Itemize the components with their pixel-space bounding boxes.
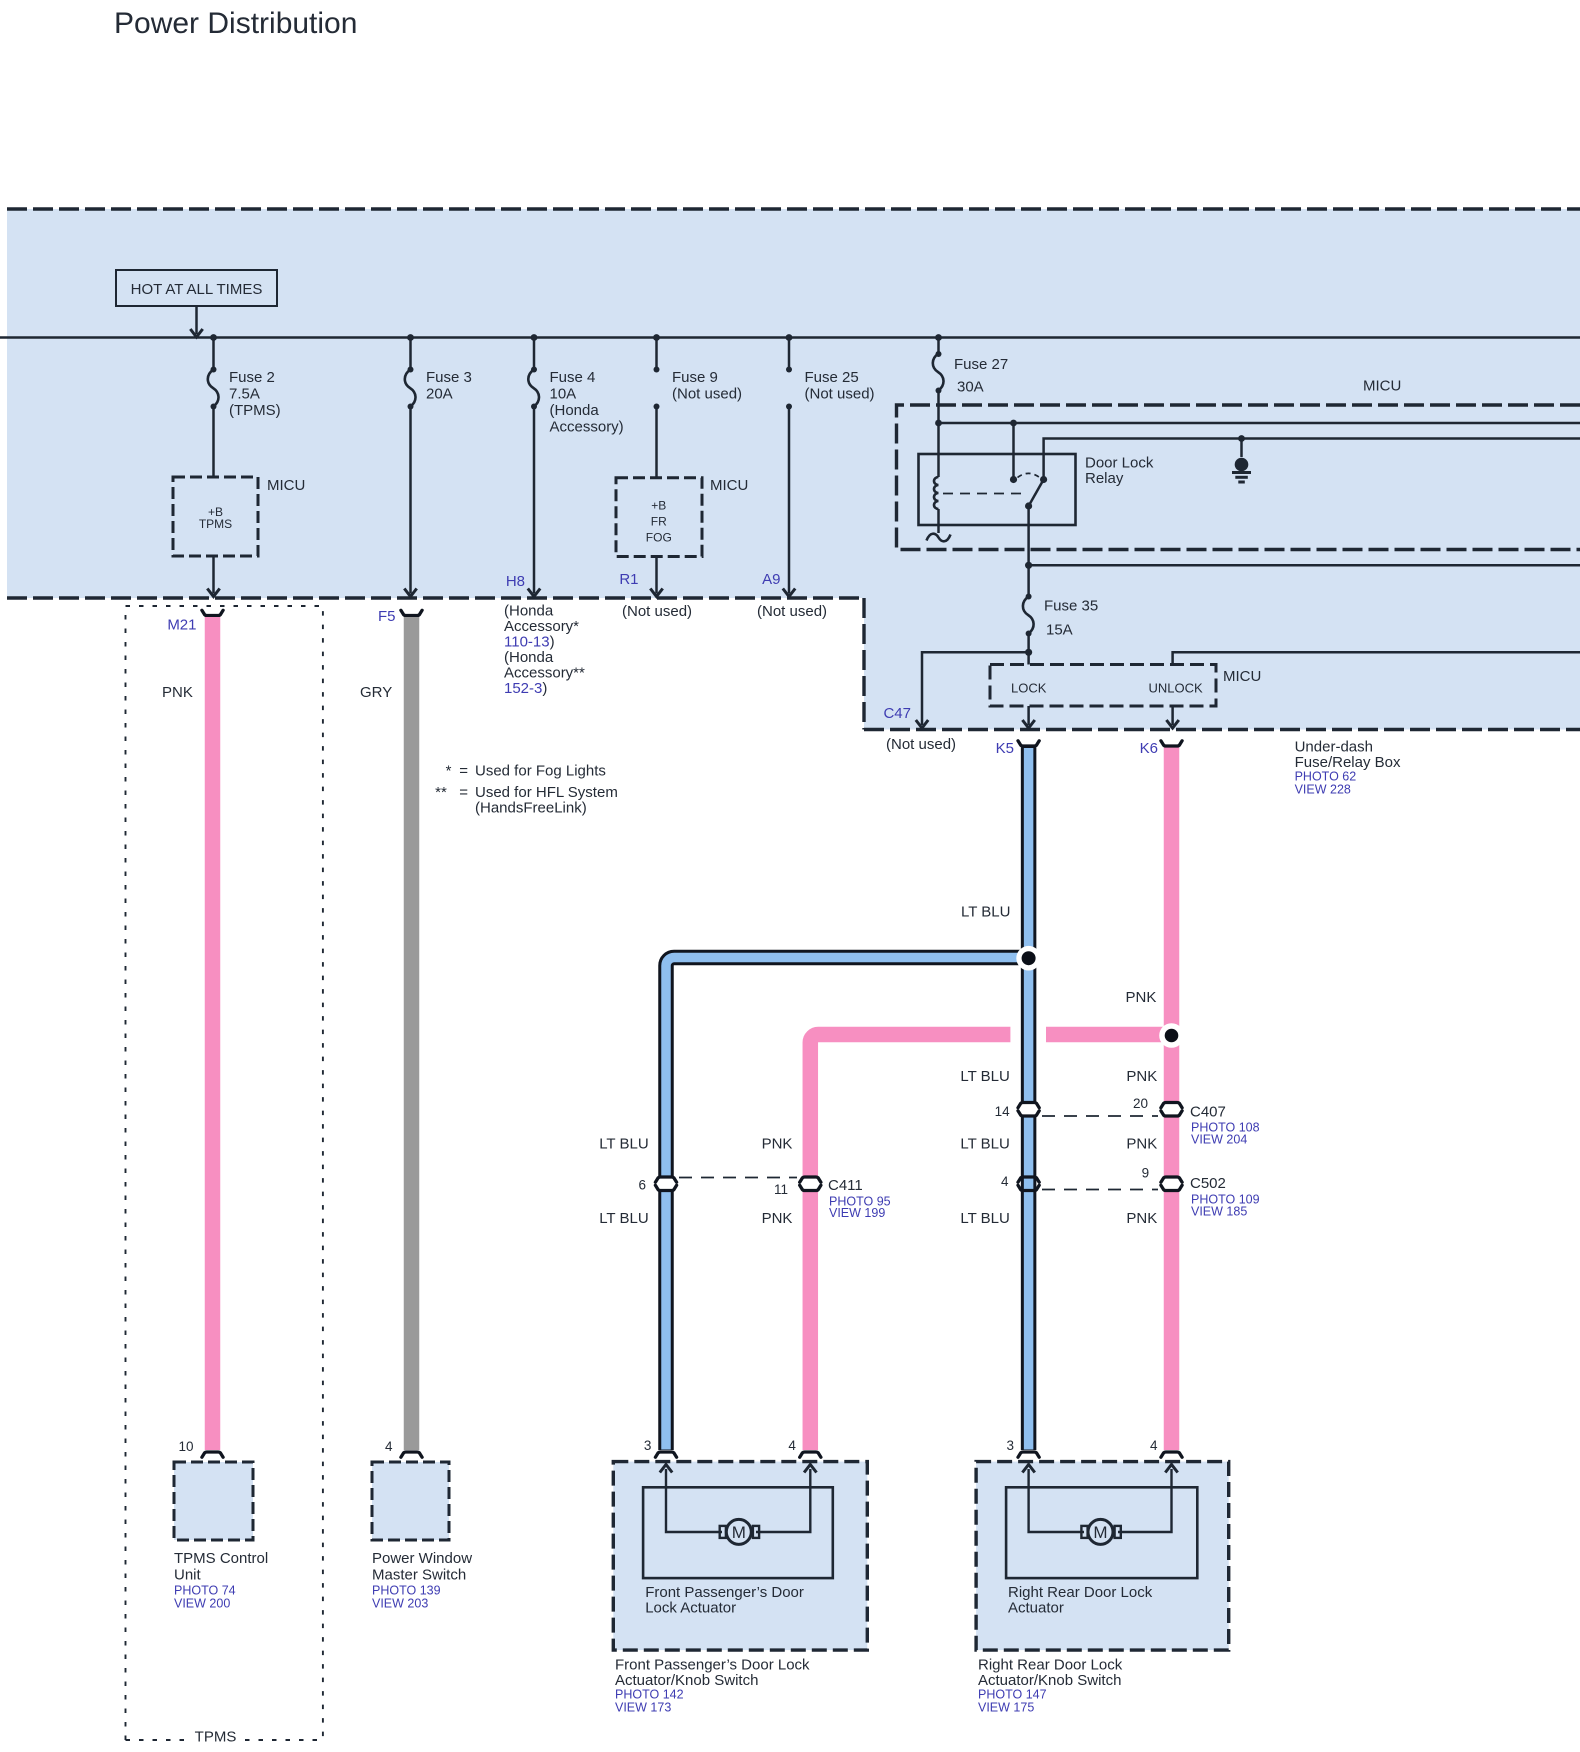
wire: front actuator pin3 lead with up arrow bbox=[666, 1469, 722, 1532]
wire: MICU +B TPMS to M21 bbox=[212, 556, 215, 594]
svg-text:PNK: PNK bbox=[162, 684, 193, 701]
wire: relay common down through box bbox=[1027, 506, 1030, 565]
svg-text:MICU: MICU bbox=[1363, 378, 1401, 395]
svg-text:30A: 30A bbox=[957, 379, 984, 396]
svg-text:Power Window: Power Window bbox=[372, 1550, 472, 1567]
svg-text:Used for HFL System: Used for HFL System bbox=[475, 784, 618, 801]
fuse/relay box dashed border: notch vertical edge bbox=[862, 598, 865, 730]
svg-text:Door Lock: Door Lock bbox=[1085, 455, 1154, 472]
svg-text:PHOTO 142: PHOTO 142 bbox=[615, 1688, 684, 1702]
svg-text:Fuse 35: Fuse 35 bbox=[1044, 598, 1098, 615]
Under-dash Fuse/Relay Box blue background region bbox=[7, 209, 1580, 730]
wire: tap down to Fuse 9 (not used) bbox=[655, 338, 658, 370]
op-amp: MICU LOCK/UNLOCK dashed box U3 bbox=[990, 665, 1216, 707]
wire: Fuse 4 down to H8 bbox=[533, 407, 536, 594]
svg-text:11: 11 bbox=[774, 1182, 788, 1197]
svg-text:MICU: MICU bbox=[710, 477, 748, 494]
svg-text:K5: K5 bbox=[996, 740, 1014, 757]
svg-text:FR: FR bbox=[651, 515, 667, 529]
box: Front Passenger's Door Lock Actuator/Knob Switch dashed bbox=[613, 1462, 867, 1651]
wire: tap down to Fuse 3 bbox=[409, 338, 412, 370]
connector cap TPMS pin 10 bbox=[202, 1452, 223, 1457]
svg-text:HOT AT ALL TIMES: HOT AT ALL TIMES bbox=[131, 281, 263, 298]
svg-text:Fuse/Relay Box: Fuse/Relay Box bbox=[1295, 754, 1401, 771]
svg-text:VIEW 200: VIEW 200 bbox=[174, 1597, 230, 1611]
svg-text:TPMS: TPMS bbox=[199, 517, 232, 531]
node: ground tap junction on line 2 bbox=[1238, 435, 1245, 442]
svg-text:+B: +B bbox=[651, 499, 666, 513]
svg-text:*: * bbox=[446, 763, 452, 780]
connector cap right rear actuator pin 3 bbox=[1018, 1452, 1039, 1457]
wire: Fuse 9 socket to MICU +B FR FOG bbox=[655, 407, 658, 478]
svg-text:152-3): 152-3) bbox=[504, 680, 547, 697]
svg-text:C47: C47 bbox=[883, 705, 911, 722]
node: relay common terminal bbox=[1025, 502, 1032, 509]
svg-text:UNLOCK: UNLOCK bbox=[1149, 681, 1204, 696]
svg-text:Fuse 4: Fuse 4 bbox=[550, 369, 596, 386]
svg-text:Under-dash: Under-dash bbox=[1295, 739, 1373, 756]
box: Right Rear Door Lock Actuator/Knob Switch dashed bbox=[976, 1462, 1229, 1651]
svg-text:PNK: PNK bbox=[762, 1210, 793, 1227]
svg-text:4: 4 bbox=[385, 1439, 393, 1454]
wire: MICU internal feed line 1 bbox=[939, 422, 1580, 425]
fuse F2 (Fuse 2 7.5A TPMS) bbox=[211, 367, 217, 373]
svg-text:LT BLU: LT BLU bbox=[961, 904, 1010, 921]
wire: Fuse 27 down to relay coil bbox=[937, 391, 940, 478]
wire: GRY from F5 to power window master switch bbox=[404, 617, 420, 1450]
svg-text:FOG: FOG bbox=[646, 531, 672, 545]
svg-text:Master Switch: Master Switch bbox=[372, 1567, 466, 1584]
wire: front actuator LT BLU lower segment (below C411) bbox=[658, 1191, 674, 1451]
wire: front actuator PNK lower segment (below C411) bbox=[803, 1191, 819, 1451]
svg-text:C407: C407 bbox=[1190, 1104, 1226, 1121]
svg-text:PNK: PNK bbox=[762, 1136, 793, 1153]
wire: Fuse 3 down to F5 connector bbox=[409, 407, 412, 594]
svg-text:PNK: PNK bbox=[1126, 989, 1157, 1006]
connector C411 break on PNK (pin 11) bbox=[800, 1177, 821, 1182]
box: TPMS Control Unit bbox=[174, 1462, 253, 1540]
connector C502 break on LT BLU (pin 4) bbox=[1018, 1177, 1039, 1182]
op-amp: MICU +B TPMS dashed box U1 bbox=[173, 477, 258, 556]
fuse F4 (Fuse 4 10A Honda Accessory) bbox=[531, 367, 537, 373]
relay K1: Door Lock Relay box bbox=[919, 454, 1076, 525]
svg-text:LT BLU: LT BLU bbox=[960, 1136, 1009, 1153]
wire: K5 LT BLU vertical upper segment bbox=[1021, 748, 1037, 1103]
svg-text:(Honda: (Honda bbox=[504, 603, 554, 620]
svg-text:TPMS Control: TPMS Control bbox=[174, 1550, 268, 1567]
wire: MICU internal feed line 2 with corner to relay pivot bbox=[1044, 439, 1580, 477]
wire: tap down to Fuse 25 (not used) bbox=[788, 338, 791, 370]
svg-text:VIEW 185: VIEW 185 bbox=[1191, 1205, 1247, 1219]
node: junction LT BLU branch bbox=[1016, 946, 1041, 971]
svg-text:PNK: PNK bbox=[1126, 1136, 1157, 1153]
svg-text:(Honda: (Honda bbox=[550, 402, 600, 419]
wire: rear actuator pin4 lead with up arrow bbox=[1118, 1469, 1172, 1532]
wire: MICU +B FR FOG to R1 bbox=[655, 557, 658, 594]
node: junction line1/relay contact bbox=[1010, 420, 1017, 427]
svg-text:VIEW 175: VIEW 175 bbox=[978, 1701, 1034, 1715]
svg-text:R1: R1 bbox=[619, 571, 638, 588]
svg-text:15A: 15A bbox=[1046, 622, 1073, 639]
svg-text:Accessory*: Accessory* bbox=[504, 618, 579, 635]
svg-text:PNK: PNK bbox=[1126, 1068, 1157, 1085]
wire: dashed connector link C502 bbox=[1042, 1189, 1158, 1191]
svg-text:(Not used): (Not used) bbox=[672, 386, 742, 403]
svg-text:Power Distribution: Power Distribution bbox=[114, 7, 357, 40]
connector cap front actuator pin 3 bbox=[655, 1452, 676, 1457]
wire: front actuator pin4 lead with up arrow bbox=[756, 1469, 810, 1532]
wire: tap down to Fuse 4 bbox=[533, 338, 536, 370]
svg-text:VIEW 204: VIEW 204 bbox=[1191, 1133, 1247, 1147]
svg-text:LT BLU: LT BLU bbox=[960, 1068, 1009, 1085]
svg-text:20: 20 bbox=[1133, 1096, 1148, 1111]
wire: tap down to Fuse 27 bbox=[937, 338, 940, 355]
connector cap F5 bbox=[401, 610, 422, 615]
wire: battery bus (hot at all times) bbox=[0, 336, 1580, 339]
svg-text:(HandsFreeLink): (HandsFreeLink) bbox=[475, 800, 587, 817]
fuse/relay box dashed border: bottom-left edge bbox=[7, 596, 864, 599]
wire: UNLOCK feed from right bbox=[1173, 652, 1580, 664]
svg-text:20A: 20A bbox=[426, 386, 453, 403]
svg-text:Actuator/Knob Switch: Actuator/Knob Switch bbox=[615, 1672, 758, 1689]
svg-text:4: 4 bbox=[788, 1438, 796, 1453]
fuse F27 (Fuse 27 30A) bbox=[936, 351, 942, 357]
wire: PNK horizontal branch right portion bbox=[1046, 1027, 1172, 1043]
svg-text:M21: M21 bbox=[167, 617, 196, 634]
svg-text:LOCK: LOCK bbox=[1011, 681, 1047, 696]
wire: UNLOCK output arrow to K6 bbox=[1171, 706, 1174, 725]
connector C407 break on PNK (pin 20) bbox=[1161, 1103, 1182, 1108]
wire: relay fixed contact from line 1 bbox=[1012, 423, 1015, 476]
svg-text:(Honda: (Honda bbox=[504, 649, 554, 666]
svg-text:C502: C502 bbox=[1190, 1175, 1226, 1192]
svg-text:14: 14 bbox=[995, 1104, 1011, 1119]
connector cap K5 bbox=[1018, 741, 1039, 746]
svg-text:MICU: MICU bbox=[267, 477, 305, 494]
svg-text:7.5A: 7.5A bbox=[229, 386, 260, 403]
svg-text:Actuator/Knob Switch: Actuator/Knob Switch bbox=[978, 1672, 1121, 1689]
wire: branch to C47 (not used) bbox=[922, 652, 1029, 725]
svg-text:PHOTO 139: PHOTO 139 bbox=[372, 1584, 441, 1598]
wire: rear actuator pin3 lead with up arrow bbox=[1029, 1469, 1084, 1532]
svg-text:9: 9 bbox=[1142, 1166, 1150, 1181]
svg-text:GRY: GRY bbox=[360, 684, 392, 701]
wire: LT BLU horizontal branch with corner down to front actuator pin 3 bbox=[666, 958, 1029, 1178]
svg-text:3: 3 bbox=[644, 1438, 652, 1453]
fuse F35 (Fuse 35 15A) bbox=[1027, 565, 1030, 596]
node: junction to C47 branch bbox=[1025, 649, 1032, 656]
node: HOT AT ALL TIMES label box bbox=[116, 270, 277, 306]
wire: K5 LT BLU vertical lower segment (below C407) bbox=[1021, 1116, 1037, 1451]
svg-text:Relay: Relay bbox=[1085, 470, 1124, 487]
svg-text:Fuse 27: Fuse 27 bbox=[954, 356, 1008, 373]
svg-text:(Not used): (Not used) bbox=[886, 736, 956, 753]
fuse F3 (Fuse 3 20A) bbox=[408, 367, 414, 373]
wire: LOCK output arrow to K5 bbox=[1027, 706, 1030, 725]
connector cap right rear actuator pin 4 bbox=[1161, 1452, 1182, 1457]
svg-text:LT BLU: LT BLU bbox=[960, 1210, 1009, 1227]
wire: Fuse 25 socket down to A9 bbox=[788, 407, 791, 594]
svg-text:VIEW 173: VIEW 173 bbox=[615, 1701, 671, 1715]
svg-text:110-13): 110-13) bbox=[504, 634, 555, 651]
svg-text:VIEW 199: VIEW 199 bbox=[829, 1206, 885, 1220]
svg-text:PHOTO 62: PHOTO 62 bbox=[1295, 770, 1357, 784]
svg-text:TPMS: TPMS bbox=[195, 1728, 237, 1745]
svg-text:(Not used): (Not used) bbox=[622, 603, 692, 620]
svg-text:F5: F5 bbox=[378, 608, 396, 625]
wire: relay output line to the right bbox=[1029, 564, 1580, 567]
connector cap front actuator pin 4 bbox=[800, 1452, 821, 1457]
svg-text:Unit: Unit bbox=[174, 1567, 202, 1584]
wire: dashed connector link C407 bbox=[1042, 1115, 1158, 1117]
svg-text:=: = bbox=[456, 763, 468, 780]
relay contact travel arc (dashed) bbox=[1018, 473, 1040, 477]
svg-text:M: M bbox=[732, 1523, 746, 1542]
box: Power Window Master Switch bbox=[372, 1462, 449, 1540]
box: rear actuator inner solid box bbox=[1006, 1487, 1197, 1578]
svg-text:VIEW 228: VIEW 228 bbox=[1295, 783, 1351, 797]
svg-text:6: 6 bbox=[638, 1178, 646, 1193]
svg-text:**: ** bbox=[435, 784, 447, 801]
svg-text:PHOTO 147: PHOTO 147 bbox=[978, 1688, 1047, 1702]
relay movable arm bbox=[1029, 480, 1044, 507]
relay mechanical link (dashed) bbox=[943, 493, 1026, 495]
node: bus tap for Fuse 25 bbox=[786, 334, 793, 341]
relay coil L1 bbox=[934, 477, 939, 509]
svg-text:K6: K6 bbox=[1140, 740, 1158, 757]
node: bus tap for Fuse 27 bbox=[935, 334, 942, 341]
svg-text:H8: H8 bbox=[506, 573, 525, 590]
connector C411 break on LT BLU (pin 6) bbox=[655, 1177, 676, 1182]
fuse/relay box dashed border: top edge bbox=[7, 207, 1580, 210]
connector cap PWMS pin 4 bbox=[401, 1452, 422, 1457]
svg-text:Fuse 25: Fuse 25 bbox=[805, 369, 859, 386]
svg-text:M: M bbox=[1093, 1523, 1107, 1542]
svg-text:MICU: MICU bbox=[1223, 668, 1261, 685]
fuse/relay box dashed border: bottom-right edge bbox=[864, 728, 1580, 731]
wire: Fuse 2 to MICU +B TPMS bbox=[212, 407, 215, 478]
node: bus tap for Fuse 4 bbox=[531, 334, 538, 341]
wire: PNK from M21 to TPMS control unit bbox=[205, 617, 221, 1450]
svg-text:4: 4 bbox=[1001, 1174, 1009, 1189]
wire: dashed connector link C411 bbox=[679, 1177, 797, 1179]
connector cap K6 bbox=[1161, 741, 1182, 746]
svg-text:=: = bbox=[456, 784, 468, 801]
svg-text:Fuse 2: Fuse 2 bbox=[229, 369, 275, 386]
svg-text:LT BLU: LT BLU bbox=[599, 1136, 648, 1153]
svg-text:Accessory): Accessory) bbox=[550, 419, 624, 436]
svg-text:Accessory**: Accessory** bbox=[504, 665, 585, 682]
motor M2: right rear door lock actuator motor bbox=[1088, 1519, 1113, 1544]
svg-text:VIEW 203: VIEW 203 bbox=[372, 1597, 428, 1611]
svg-text:Right Rear Door Lock: Right Rear Door Lock bbox=[1008, 1584, 1153, 1601]
svg-text:Actuator: Actuator bbox=[1008, 1600, 1064, 1617]
svg-text:3: 3 bbox=[1006, 1438, 1014, 1453]
svg-text:LT BLU: LT BLU bbox=[599, 1210, 648, 1227]
motor M1: front door lock actuator motor bbox=[726, 1519, 751, 1544]
node: TPMS dotted enclosure bbox=[126, 606, 323, 1740]
wire: K6 PNK vertical upper segment bbox=[1164, 748, 1180, 1103]
connector C502 break on PNK (pin 9) bbox=[1161, 1177, 1182, 1182]
svg-text:Fuse 9: Fuse 9 bbox=[672, 369, 718, 386]
svg-text:Fuse 3: Fuse 3 bbox=[426, 369, 472, 386]
wire: K6 PNK vertical middle segment bbox=[1164, 1116, 1180, 1178]
node: junction PNK branch bbox=[1159, 1023, 1184, 1048]
box: front actuator inner solid box bbox=[643, 1487, 833, 1578]
ground G1 bbox=[1240, 439, 1243, 458]
wire: fuse 35 to LOCK driver bbox=[1027, 634, 1030, 665]
connector C407 break on LT BLU (pin 14) bbox=[1018, 1103, 1039, 1108]
svg-text:10: 10 bbox=[178, 1439, 193, 1454]
svg-text:(TPMS): (TPMS) bbox=[229, 402, 281, 419]
svg-text:(Not used): (Not used) bbox=[805, 386, 875, 403]
svg-text:PNK: PNK bbox=[1126, 1210, 1157, 1227]
svg-text:4: 4 bbox=[1150, 1438, 1158, 1453]
wire: arrow from HOT AT ALL TIMES to bus bbox=[195, 306, 198, 334]
node: bus tap for Fuse 3 bbox=[407, 334, 414, 341]
svg-text:Front Passenger’s Door: Front Passenger’s Door bbox=[645, 1584, 804, 1601]
node: bus tap for Fuse 2 bbox=[210, 334, 217, 341]
svg-text:C411: C411 bbox=[828, 1177, 863, 1194]
connector cap M21 bbox=[202, 610, 223, 615]
node: relay pivot contact bbox=[1040, 476, 1047, 483]
wire: K6 PNK vertical lower segment bbox=[1164, 1191, 1180, 1451]
op-amp: MICU +B FR FOG dashed box U2 bbox=[616, 478, 702, 557]
node: bus tap for Fuse 9 bbox=[653, 334, 660, 341]
svg-text:10A: 10A bbox=[550, 386, 577, 403]
wire: PNK horizontal branch left portion with corner down to front actuator pin 4 bbox=[810, 1034, 1010, 1177]
op-amp: MICU large dashed box (relay section) bbox=[897, 405, 1580, 550]
node: junction fuse27/line1 bbox=[935, 420, 942, 427]
svg-text:Lock Actuator: Lock Actuator bbox=[645, 1600, 736, 1617]
svg-text:PHOTO 74: PHOTO 74 bbox=[174, 1584, 236, 1598]
node: relay fixed contact bbox=[1010, 476, 1017, 483]
node: junction relay output bbox=[1025, 562, 1032, 569]
svg-text:A9: A9 bbox=[762, 571, 780, 588]
svg-text:(Not used): (Not used) bbox=[757, 603, 827, 620]
svg-text:Used for Fog Lights: Used for Fog Lights bbox=[475, 763, 606, 780]
wire: coil lower lead to body ground squiggle bbox=[937, 509, 940, 533]
wire: tap down to Fuse 2 bbox=[212, 338, 215, 370]
